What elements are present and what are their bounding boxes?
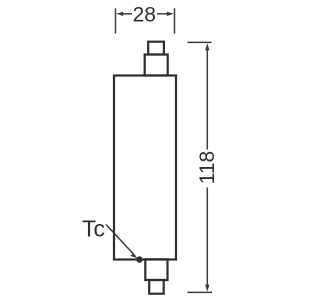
left extension tick: [115, 8, 117, 33]
bottom extension tick: [188, 291, 213, 293]
lamp top contact pin: [148, 42, 164, 55]
bottom arrowhead: [205, 285, 209, 292]
leader arrowhead: [130, 253, 137, 258]
lamp body outline: [114, 42, 176, 294]
Tc measurement point dot: [136, 256, 142, 262]
right dimension line: [157, 13, 169, 15]
svg-text:28: 28: [133, 3, 156, 26]
left dimension line: [121, 13, 132, 15]
svg-text:118: 118: [196, 151, 219, 184]
left arrowhead: [116, 12, 123, 16]
top extension tick: [188, 41, 212, 43]
svg-text:Tc: Tc: [82, 215, 105, 241]
width dimension "28": [116, 8, 175, 33]
lamp main body rectangle: [114, 76, 176, 260]
lamp bottom contact pin: [149, 280, 164, 294]
length dimension "118": [188, 42, 213, 292]
right arrowhead: [167, 12, 174, 16]
Tc leader line: [106, 225, 137, 259]
lamp bottom ceramic cap: [145, 259, 167, 280]
lower dimension line: [206, 188, 208, 288]
upper dimension line: [206, 48, 208, 150]
top arrowhead: [205, 43, 209, 50]
lamp top ceramic cap: [145, 55, 168, 76]
right extension tick: [174, 8, 176, 33]
